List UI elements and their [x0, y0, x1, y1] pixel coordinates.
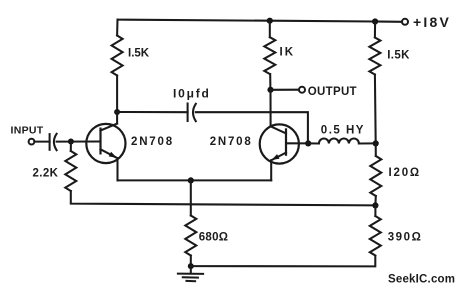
transistor Q2 emitter arrowhead: [272, 154, 280, 160]
wire bottom rail ground to R7 bottom: [191, 256, 375, 267]
transistor Q2 emitter diagonal: [271, 153, 286, 161]
svg-text:I.5K: I.5K: [387, 50, 410, 62]
wire Q2 emitter down to emitter rail: [270, 160, 272, 180]
wire emitter rail: [118, 179, 272, 181]
node D junction dot on top rail (R2): [267, 18, 273, 24]
resistor R3 1.5K (right): [369, 38, 380, 75]
svg-text:2N708: 2N708: [131, 136, 174, 148]
capacitor C2 10ufd coupling: [188, 104, 196, 122]
svg-text:INPUT: INPUT: [11, 125, 44, 137]
wire node E down to Q2 collector: [269, 90, 271, 127]
svg-text:2N708: 2N708: [210, 136, 253, 148]
node H junction dot (L1 / R3 / R6): [373, 140, 379, 146]
node B junction dot (Q2 base / C2 / L1): [305, 140, 311, 146]
resistor R7 390ohm: [370, 216, 381, 255]
transistor Q1 2N708 circle: [86, 124, 125, 163]
capacitor C1 input coupling: [50, 134, 57, 150]
resistor R4 2.2K: [65, 151, 76, 191]
svg-text:680Ω: 680Ω: [199, 232, 229, 244]
svg-text:2.2K: 2.2K: [33, 168, 59, 180]
resistor R2 1K: [264, 37, 275, 74]
wire R6 bottom to node F: [374, 196, 376, 205]
wire Q1 collector up to node A: [116, 112, 118, 124]
wire R4 bottom feedback run to node F: [71, 191, 376, 205]
transistor Q1 emitter diagonal: [101, 149, 118, 158]
resistor R1 1.5K (left collector load): [112, 36, 123, 76]
wire R5 bottom to ground node: [190, 256, 192, 267]
wire node B to inductor L1: [308, 142, 319, 144]
wire Q1 emitter down to emitter rail: [116, 158, 118, 180]
resistor R5 680ohm: [185, 216, 196, 256]
node C junction dot (base / R4): [68, 139, 74, 145]
input terminal open circle: [29, 139, 35, 145]
wire C2 right plate to Q2 base node B: [196, 112, 308, 143]
wire node G down to R5: [190, 180, 192, 215]
wire node F to R7 top: [374, 205, 376, 216]
wire left column top (rail corner down to R1): [116, 20, 118, 36]
transistor Q2 collector diagonal: [271, 126, 287, 133]
svg-text:I20Ω: I20Ω: [389, 167, 421, 179]
wire node C down to R4: [70, 142, 72, 152]
wire R2 bottom to node E: [269, 74, 271, 90]
wire input terminal to C1: [34, 141, 49, 143]
transistor Q2 base lead to node B: [286, 142, 308, 144]
OUTPUT terminal open circle: [299, 87, 305, 93]
wire L1 to node H: [359, 142, 376, 144]
wire rail to R2 top: [269, 21, 271, 38]
transistor Q2 base bar: [285, 128, 287, 156]
wire node E to OUTPUT terminal: [271, 89, 299, 91]
svg-text:SeekIC.com: SeekIC.com: [388, 273, 455, 285]
svg-text:0.5 HY: 0.5 HY: [321, 125, 365, 137]
wire rail to R3 top: [374, 22, 376, 38]
ground symbol: [178, 266, 203, 281]
wire node A to capacitor C2 left plate: [117, 111, 188, 113]
svg-text:IK: IK: [280, 47, 296, 59]
+18V terminal open circle: [402, 19, 408, 25]
transistor Q2 2N708 circle: [260, 124, 299, 163]
node E junction dot (output node): [267, 87, 273, 93]
wire R3 bottom to node H: [374, 75, 377, 144]
wire top rail +18V bus: [118, 20, 402, 22]
svg-text:390Ω: 390Ω: [388, 232, 423, 244]
wire node H to R6 top: [375, 143, 377, 156]
node F junction dot (R6 / R7 / feedback): [372, 202, 378, 208]
wire R1 bottom to node A: [116, 76, 118, 113]
svg-text:I.5K: I.5K: [128, 48, 150, 60]
transistor Q1 collector diagonal: [101, 124, 118, 131]
svg-text:OUTPUT: OUTPUT: [308, 86, 357, 98]
node I junction dot on top rail (R3): [372, 18, 378, 24]
transistor Q1 base bar: [99, 128, 101, 155]
inductor L1 0.5 HY: [319, 139, 359, 144]
ground node junction dot: [188, 263, 194, 269]
node G junction dot (emitter rail / R5): [188, 177, 194, 183]
transistor Q1 emitter arrowhead: [109, 152, 117, 158]
node A junction dot (Q1 collector / C2 / R1): [114, 109, 120, 115]
svg-text:+I8V: +I8V: [413, 14, 451, 30]
svg-text:I0μfd: I0μfd: [173, 87, 211, 101]
resistor R6 120ohm: [370, 156, 381, 196]
wire C1 to Q1 base (through node C): [57, 140, 101, 142]
